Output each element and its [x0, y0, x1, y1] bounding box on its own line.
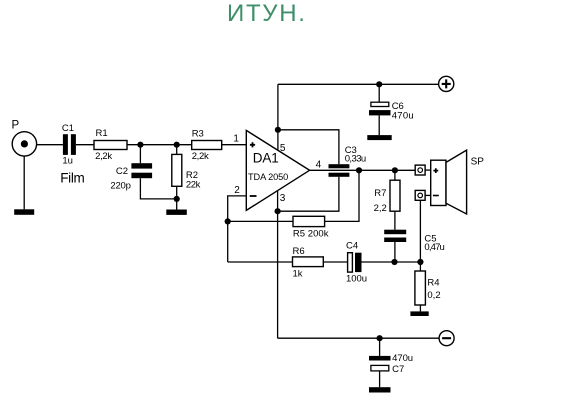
wire pin 3 down to rail: [277, 191, 279, 338]
wire R2 top lead: [176, 145, 178, 155]
wire R4 to ground: [419, 305, 421, 311]
wire C5 bottom lead: [394, 242, 396, 262]
ground under R4: [410, 311, 428, 316]
wire C7 top lead: [379, 338, 381, 356]
svg-text:Film: Film: [60, 171, 84, 186]
svg-text:C1: C1: [62, 123, 74, 134]
node C5 rail: [391, 259, 397, 265]
node output R7: [392, 167, 398, 173]
svg-text:DA1: DA1: [253, 151, 279, 166]
svg-text:R4: R4: [427, 278, 439, 289]
wire C1 to R1: [76, 144, 94, 146]
title ИТУН.: [227, 0, 307, 27]
svg-text:0,33u: 0,33u: [345, 153, 367, 164]
terminal minus: [439, 331, 454, 346]
svg-text:TDA 2050: TDA 2050: [248, 172, 288, 182]
wire R2 bottom lead: [176, 186, 178, 209]
capacitor C7: [369, 353, 413, 375]
resistor R1: [94, 128, 127, 162]
svg-text:5: 5: [280, 143, 286, 154]
wire R6 to C4: [323, 261, 347, 263]
svg-text:0,47u: 0,47u: [424, 242, 444, 253]
node pin2 feedback: [225, 218, 231, 224]
capacitor C6: [369, 101, 414, 122]
ground under P: [14, 209, 34, 215]
resistor R5: [293, 216, 329, 239]
node output R5: [356, 167, 362, 173]
node at R2 top: [174, 142, 180, 148]
node pin3 branch: [275, 208, 281, 214]
svg-text:C7: C7: [392, 364, 404, 375]
node C2/R2 ground junction: [174, 196, 180, 202]
ground under C6: [367, 135, 391, 140]
node pin5 branch: [275, 127, 281, 133]
svg-text:100u: 100u: [346, 273, 367, 284]
node R4 rail: [417, 259, 423, 265]
svg-text:R1: R1: [96, 128, 108, 139]
svg-text:220p: 220p: [110, 180, 130, 191]
wire C3 bottom to pin3 node: [278, 177, 339, 211]
resistor R3: [192, 128, 222, 162]
pin 5 label: [280, 143, 286, 154]
capacitor C1: [60, 123, 84, 185]
svg-text:C2: C2: [116, 166, 128, 177]
wire node to C2: [139, 145, 141, 164]
svg-text:R7: R7: [374, 188, 386, 199]
node after R1: [137, 142, 143, 148]
svg-text:470u: 470u: [392, 111, 414, 122]
pin 4 label: [316, 160, 322, 171]
wire bottom rail: [278, 337, 440, 339]
wire top rail: [278, 83, 439, 85]
wire C6 bottom lead: [378, 115, 380, 135]
wire C2 bottom to node: [140, 178, 176, 199]
wire R7 top lead: [394, 170, 396, 180]
wire R5 left lead: [228, 220, 293, 222]
wire pin5 node to C3 top: [278, 130, 339, 164]
wire rail C5 to R4: [395, 261, 421, 263]
svg-text:22k: 22k: [186, 179, 201, 190]
svg-text:C4: C4: [346, 240, 358, 251]
svg-text:4: 4: [316, 160, 322, 171]
svg-text:2,2k: 2,2k: [192, 151, 209, 162]
wire pin 2 loop left: [228, 196, 247, 262]
connector P: [12, 120, 37, 156]
node top rail C6: [376, 81, 382, 87]
pin 2 label: [234, 185, 240, 196]
op-amp DA1: [246, 130, 309, 210]
wire C4 to rail node: [362, 261, 395, 263]
wire C6 top lead: [378, 84, 380, 102]
capacitor C3: [329, 145, 367, 177]
resistor R4: [415, 262, 441, 305]
resistor R2: [172, 154, 201, 190]
svg-text:3: 3: [280, 193, 286, 204]
ground under R2: [166, 210, 187, 215]
svg-text:470u: 470u: [392, 353, 413, 364]
wire R1 to R3: [127, 144, 192, 146]
speaker - terminal: [415, 190, 425, 200]
svg-text:R6: R6: [293, 246, 305, 257]
wire R3 to pin 1: [222, 144, 247, 146]
svg-text:1u: 1u: [62, 155, 73, 166]
svg-text:P: P: [12, 120, 20, 132]
wire P to ground: [23, 156, 25, 209]
svg-text:0,2: 0,2: [427, 290, 440, 301]
wire R6 left lead: [228, 261, 293, 263]
terminal plus: [439, 76, 454, 91]
svg-text:1k: 1k: [293, 269, 303, 280]
pin 1 label: [233, 134, 239, 145]
speaker + terminal: [415, 165, 425, 175]
node bottom rail C7: [377, 335, 383, 341]
wire C7 bottom lead: [379, 371, 381, 387]
ground under C7: [369, 387, 391, 392]
wire P to C1: [37, 144, 63, 146]
resistor R6: [293, 246, 324, 280]
wire terminals to speaker box: [425, 170, 431, 195]
svg-text:R3: R3: [192, 128, 204, 139]
svg-text:SP: SP: [471, 156, 485, 167]
svg-text:ИТУН.: ИТУН.: [227, 0, 307, 27]
svg-text:R5 200k: R5 200k: [293, 229, 329, 240]
capacitor C2: [110, 163, 152, 191]
wire R5 right to output node: [325, 170, 359, 221]
svg-text:1: 1: [233, 134, 239, 145]
svg-text:2,2k: 2,2k: [95, 151, 112, 162]
svg-text:2: 2: [234, 185, 240, 196]
capacitor C4: [346, 240, 367, 284]
svg-text:2,2: 2,2: [374, 203, 387, 214]
wire output pin 4: [310, 169, 416, 171]
wire pin 5 up to rail: [277, 84, 279, 150]
pin 3 label: [280, 193, 286, 204]
resistor R7: [374, 180, 400, 214]
wire - terminal down: [419, 200, 421, 262]
capacitor C5: [384, 230, 445, 253]
speaker SP: [431, 150, 485, 214]
wire R7 to C5: [394, 211, 396, 230]
